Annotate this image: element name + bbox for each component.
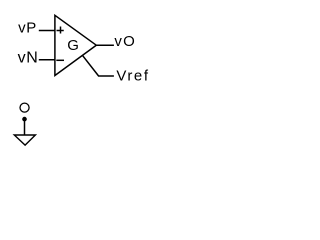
wire vN input xyxy=(39,59,55,61)
wire to ground xyxy=(24,119,26,135)
wire vP input xyxy=(39,30,55,32)
wire Vref branch xyxy=(83,55,114,76)
svg-text:vP: vP xyxy=(18,19,37,36)
svg-text:G: G xyxy=(67,37,79,54)
svg-text:Vref: Vref xyxy=(116,67,149,84)
svg-text:vN: vN xyxy=(18,49,39,66)
minus (inverting input mark) xyxy=(56,59,64,61)
op-amp U1 (gain block G) xyxy=(55,15,96,75)
plus (non-inverting input mark) xyxy=(57,27,64,34)
svg-text:vO: vO xyxy=(114,33,136,50)
ground xyxy=(14,135,35,145)
junction dot xyxy=(22,117,27,122)
terminal O (ground reference node) xyxy=(20,103,29,112)
wire vO output xyxy=(96,44,114,46)
